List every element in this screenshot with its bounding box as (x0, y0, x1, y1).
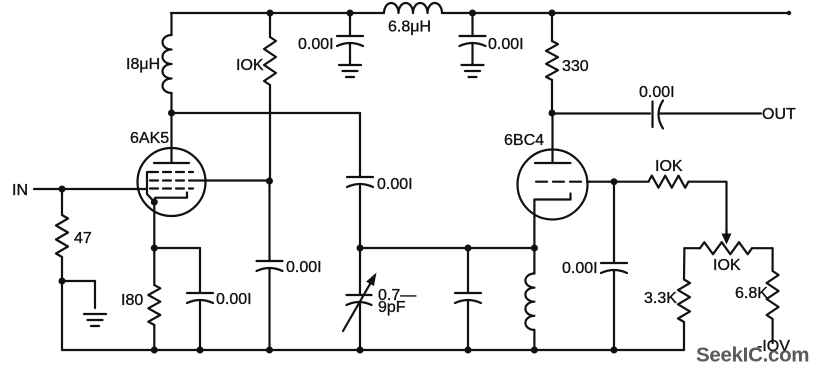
label C6 0.7-9pF (378, 287, 416, 316)
junction dot R4 / bottom rail (151, 347, 158, 354)
inductor L1 18uH plate choke (163, 13, 172, 113)
junction dot rail / R3 (549, 10, 556, 17)
tube U1 6AK5 envelope (138, 148, 206, 216)
capacitor C6 variable 0.7-9pF (347, 248, 372, 350)
svg-text:330: 330 (562, 58, 589, 75)
junction dot cathode choke top (531, 245, 538, 252)
svg-text:0.00I: 0.00I (377, 176, 413, 193)
wiper arrow (722, 230, 732, 245)
U1 grid 2 (dashed) (150, 179, 198, 181)
capacitor C5 0.001 cathode bypass (187, 248, 213, 350)
wire to OUT terminal (660, 112, 761, 114)
potentiometer R6 10K (684, 242, 772, 254)
junction dot C4 / bottom rail (266, 347, 273, 354)
svg-text:I80: I80 (121, 292, 143, 309)
junction dot input / R1 (59, 186, 66, 193)
junction dot U1 cathode lead (151, 199, 158, 206)
svg-text:I8μH: I8μH (126, 56, 160, 73)
svg-text:9pF: 9pF (378, 299, 406, 316)
label L2 6.8uH (388, 19, 431, 36)
junction dot rail / C2 (469, 10, 476, 17)
U1 grid 3 (dashed) (150, 187, 193, 189)
U2 cathode (534, 194, 570, 249)
wire plate node to output cap (552, 112, 650, 114)
label C3 0.001 (377, 176, 413, 193)
ground below C2 (462, 65, 484, 77)
svg-text:0.00I: 0.00I (216, 291, 252, 308)
label -10V supply (757, 338, 790, 355)
capacitor C2 0.001 bypass (460, 13, 486, 65)
U1 plate and lead (154, 116, 189, 163)
label C4 0.001 (286, 259, 322, 276)
resistor R4 180 cathode bias (148, 248, 160, 350)
resistor R3 330 plate load (546, 13, 558, 113)
svg-text:0.00I: 0.00I (488, 36, 524, 53)
wire R1 bottom to bottom rail (61, 281, 63, 350)
U2 plate and lead (535, 116, 571, 163)
wire coupling node to 6BC4 cathode (360, 247, 534, 249)
junction dot U1 cathode node (151, 245, 158, 252)
watermark SeekIC.com (696, 344, 809, 367)
inductor L2 6.8uH series in rail (384, 3, 442, 13)
junction dot rail / C1 (347, 10, 354, 17)
wire U2 grid to bias network (589, 181, 649, 183)
ground symbol input (84, 314, 106, 326)
label U1 6AK5 (130, 130, 169, 147)
svg-text:IOK: IOK (236, 57, 264, 74)
junction dot coupling node (357, 245, 364, 252)
resistor R5 10K grid (649, 176, 689, 188)
junction dot C6 / bottom rail (357, 347, 364, 354)
resistor R7 3.3K (678, 248, 690, 350)
wire 6AK5 plate node to coupling cap (172, 112, 361, 114)
resistor R1 47 input termination (56, 189, 68, 281)
tube U2 6BC4 envelope (518, 150, 588, 220)
label R6 10K (713, 257, 741, 274)
svg-text:47: 47 (74, 230, 92, 247)
svg-text:0.00I: 0.00I (639, 84, 675, 101)
U1 control grid bracket lead (147, 172, 154, 202)
label R1 47 (74, 230, 92, 247)
capacitor C7 0.001 output coupling (653, 101, 664, 129)
label R5 10K (655, 158, 683, 175)
svg-text:6BC4: 6BC4 (504, 132, 544, 149)
label R7 3.3K (644, 290, 677, 307)
svg-text:0.00I: 0.00I (562, 260, 598, 277)
junction dot R1 bottom (59, 278, 66, 285)
wire input lead (34, 188, 147, 190)
wire cathode node to C5 (154, 247, 200, 249)
junction node 6AK5 plate (168, 110, 175, 117)
resistor R8 6.8K (767, 248, 779, 343)
capacitor C3 0.001 interstage coupling (347, 113, 373, 248)
wire to input ground (62, 281, 95, 308)
U1 grid 1 (dashed) (150, 171, 193, 173)
wire bottom ground rail (62, 349, 684, 351)
svg-text:OUT: OUT (762, 106, 796, 123)
wire top supply rail (171, 11, 791, 15)
label OUT (762, 106, 796, 123)
svg-text:IOK: IOK (655, 158, 683, 175)
svg-text:0.00I: 0.00I (286, 259, 322, 276)
svg-text:SeekIC.com: SeekIC.com (696, 344, 809, 367)
junction dot L3 / bottom rail (531, 347, 538, 354)
svg-text:6AK5: 6AK5 (130, 130, 169, 147)
junction node 6BC4 plate (549, 110, 556, 117)
svg-text:3.3K: 3.3K (644, 290, 677, 307)
capacitor C1 0.001 bypass (337, 13, 363, 65)
svg-text:IN: IN (12, 182, 28, 199)
svg-text:IOK: IOK (713, 257, 741, 274)
junction dot C8 top (465, 245, 472, 252)
junction dot screen node (266, 178, 273, 185)
junction dot rail / R2 (267, 10, 274, 17)
label C1 0.001 (298, 36, 334, 53)
label U2 6BC4 (504, 132, 544, 149)
junction dot C9 / bottom rail (611, 347, 618, 354)
label IN (12, 182, 28, 199)
label C9 0.001 (562, 260, 598, 277)
label R2 10K (236, 57, 264, 74)
arrow of variable capacitor C6 (343, 273, 377, 332)
capacitor C4 0.001 screen bypass (257, 181, 283, 350)
svg-text:0.00I: 0.00I (298, 36, 334, 53)
junction dot C8 / bottom rail (465, 347, 472, 354)
junction dot grid node (611, 178, 618, 185)
ground below C1 (339, 65, 361, 77)
capacitor C8 (unlabeled) (455, 248, 481, 350)
label R4 180 (121, 292, 143, 309)
svg-text:6.8μH: 6.8μH (388, 19, 431, 36)
U1 cathode (154, 193, 187, 249)
wire R5 to potentiometer wiper (689, 182, 727, 235)
U2 grid (dashed) (536, 181, 590, 183)
capacitor C9 0.001 grid bypass (601, 182, 627, 350)
junction dot C5 / bottom rail (197, 347, 204, 354)
label C2 0.001 (488, 36, 524, 53)
label C5 0.001 (216, 291, 252, 308)
label C7 0.001 (639, 84, 675, 101)
wire U1 screen grid to R2/C4 node (198, 179, 270, 181)
label L1 18uH (126, 56, 160, 73)
svg-text:6.8K: 6.8K (735, 285, 768, 302)
label R8 6.8K (735, 285, 768, 302)
label R3 330 (562, 58, 589, 75)
inductor L3 6BC4 cathode choke (525, 248, 534, 350)
resistor R2 10K screen dropper (264, 13, 276, 181)
